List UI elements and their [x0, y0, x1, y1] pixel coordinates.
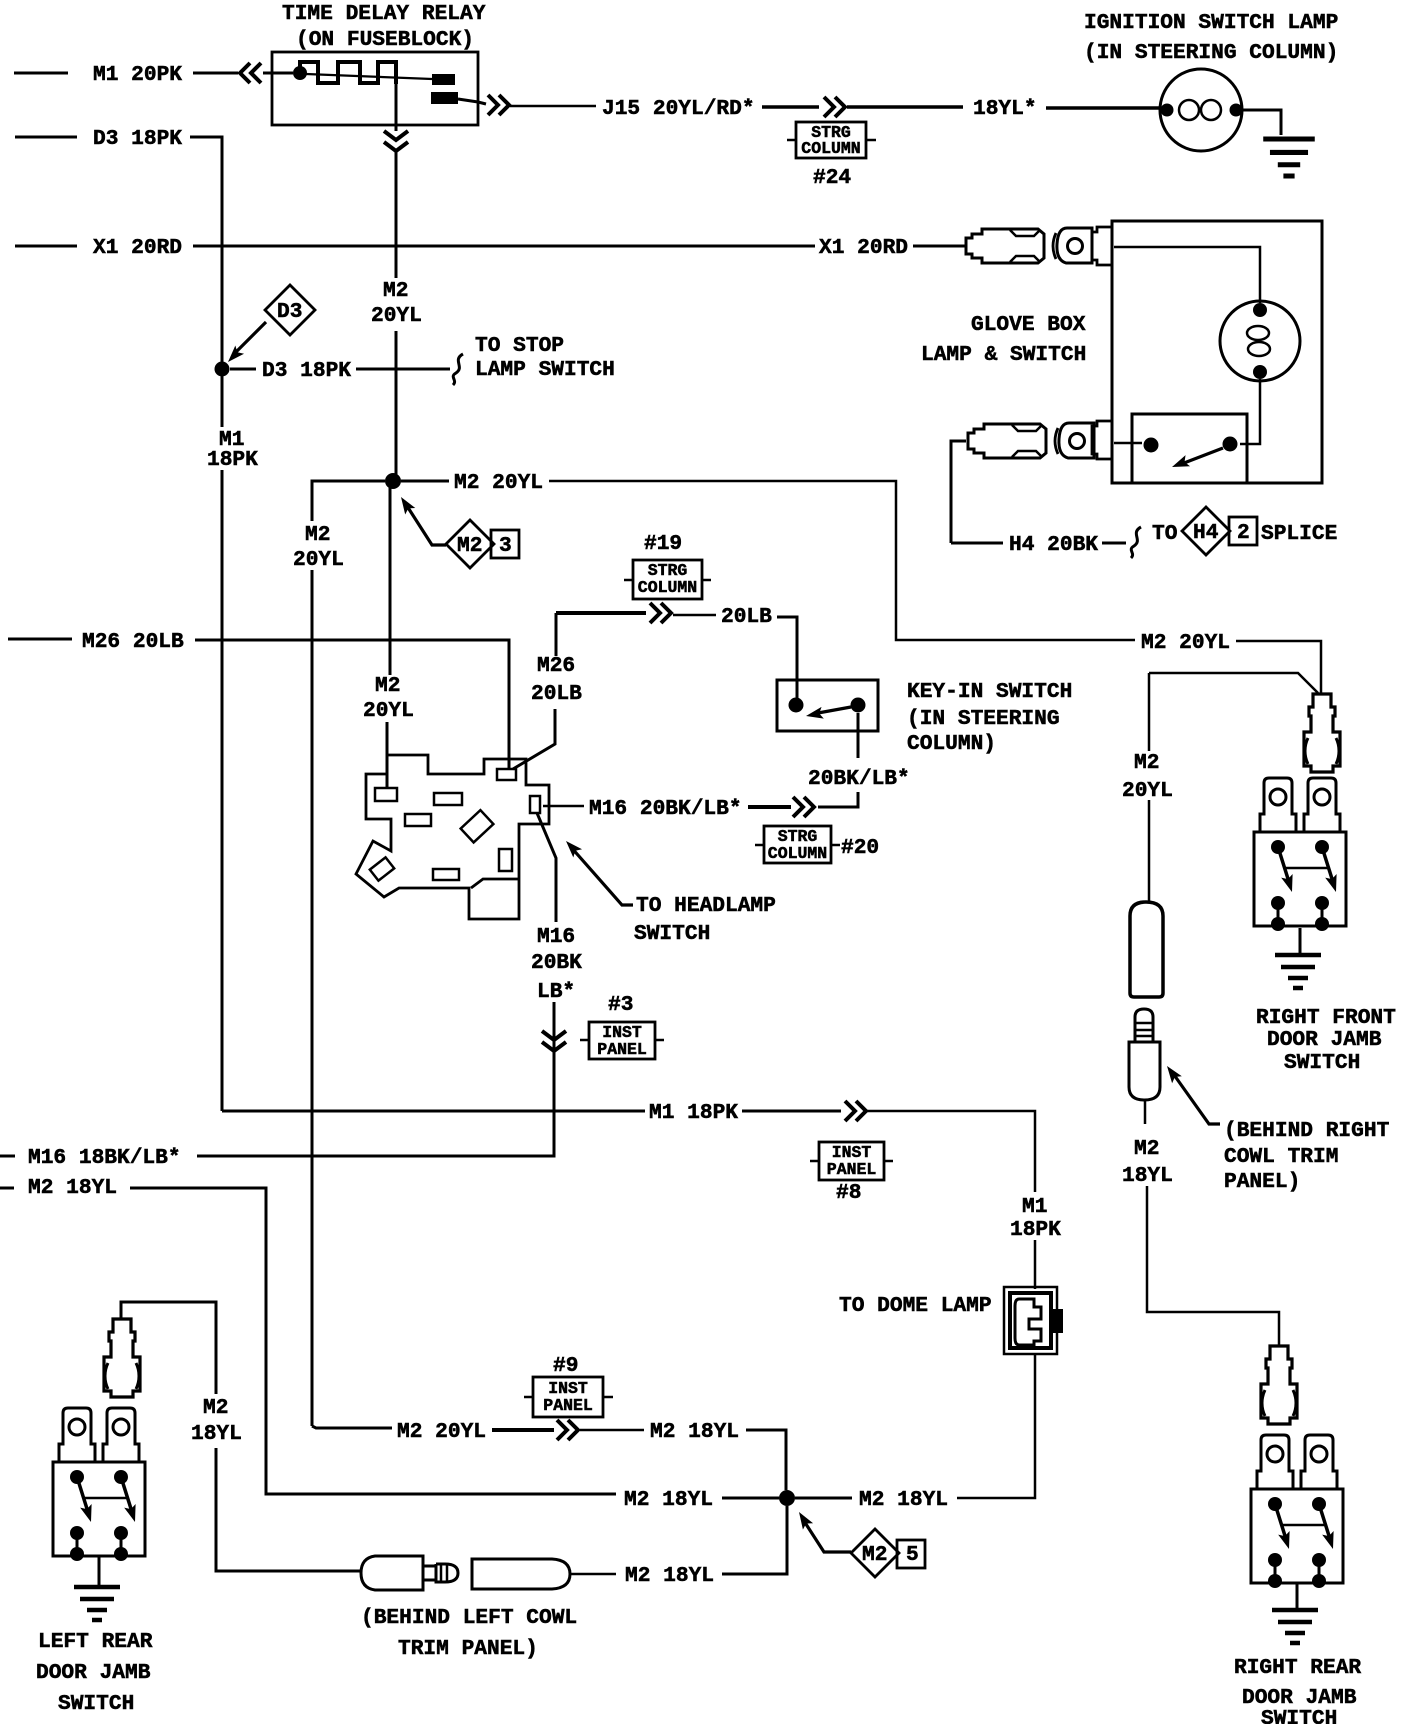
- label M1 18PK vertical: [207, 428, 258, 472]
- svg-text:#19: #19: [644, 532, 682, 556]
- label M2 20YL mid vertical: [363, 674, 414, 723]
- label J15 20YL/RD*: [602, 97, 755, 121]
- label right rear door jamb switch: [1234, 1656, 1361, 1724]
- arrow M2 5 to junction: [794, 1509, 851, 1552]
- connector pair H4: [968, 423, 1094, 458]
- svg-text:IGNITION SWITCH LAMP: IGNITION SWITCH LAMP: [1084, 11, 1338, 35]
- svg-text:18YL: 18YL: [191, 1422, 242, 1446]
- wire to 20LB label: [673, 614, 716, 617]
- label TO splice: [1152, 522, 1177, 546]
- svg-text:M2: M2: [1134, 1137, 1159, 1161]
- label #9: [553, 1354, 578, 1378]
- wire cowl male to M2 18YL vertical: [121, 1302, 361, 1571]
- wire M2 18YL stub: [0, 1187, 14, 1190]
- wire M26 20LB branch vertical: [513, 613, 646, 769]
- svg-text:TRIM PANEL): TRIM PANEL): [398, 1637, 538, 1661]
- svg-text:18YL: 18YL: [1122, 1164, 1173, 1188]
- label D3 18PK mid: [262, 359, 351, 383]
- diamond M2 5 pointer: [851, 1529, 899, 1577]
- right rear door jamb switch S6: [1251, 1435, 1343, 1588]
- svg-text:18YL*: 18YL*: [973, 97, 1037, 121]
- svg-text:(BEHIND LEFT COWL: (BEHIND LEFT COWL: [361, 1606, 577, 1630]
- ground left rear: [74, 1587, 120, 1620]
- wire M16 18BK/LB* stub: [0, 1155, 15, 1158]
- wire M26 20LB to headlamp switch: [195, 640, 509, 768]
- male bullet connector right column: [1129, 1009, 1160, 1100]
- svg-text:COLUMN: COLUMN: [768, 844, 827, 863]
- svg-text:TO STOP: TO STOP: [475, 334, 564, 358]
- svg-text:PANEL: PANEL: [827, 1160, 877, 1179]
- svg-text:M2 18YL: M2 18YL: [625, 1564, 714, 1588]
- right front door jamb switch S5: [1254, 778, 1346, 931]
- svg-text:PANEL): PANEL): [1224, 1170, 1300, 1194]
- svg-text:COLUMN): COLUMN): [907, 732, 996, 756]
- capsule connector right column: [1130, 902, 1163, 997]
- svg-text:5: 5: [906, 1543, 919, 1567]
- wire to J15 label: [510, 105, 596, 108]
- svg-text:RIGHT REAR: RIGHT REAR: [1234, 1656, 1361, 1680]
- svg-text:M2 20YL: M2 20YL: [1141, 631, 1230, 655]
- label M2 20YL left branch: [293, 523, 344, 572]
- wire M1 18PK row: [222, 1110, 645, 1113]
- label behind right cowl trim panel: [1224, 1119, 1390, 1194]
- svg-text:LAMP SWITCH: LAMP SWITCH: [475, 358, 615, 382]
- svg-text:TIME DELAY RELAY: TIME DELAY RELAY: [282, 2, 486, 26]
- wire X1 20RD long: [193, 245, 815, 248]
- label M2 20YL upper: [371, 279, 422, 328]
- wire male bullet down: [1145, 1100, 1279, 1346]
- wire M2 20YL corner to row: [312, 1426, 392, 1428]
- svg-text:LB*: LB*: [537, 980, 575, 1004]
- headlamp switch connector body: [356, 755, 549, 919]
- wire to M2 18YL label: [580, 1429, 644, 1432]
- wire M26 20LB stub: [8, 638, 72, 641]
- connector box STRG COLUMN #20: [755, 826, 879, 863]
- wire J15 to strg column: [762, 105, 819, 109]
- dome lamp connector: [1004, 1287, 1063, 1354]
- svg-text:M1: M1: [1022, 1195, 1047, 1219]
- label 18YL*: [973, 97, 1037, 121]
- svg-text:DOOR JAMB: DOOR JAMB: [1267, 1028, 1382, 1052]
- connector chevrons M1 inst panel #8: [845, 1101, 866, 1121]
- svg-text:M2 20YL: M2 20YL: [397, 1420, 486, 1444]
- wire lamp to ground: [1243, 110, 1281, 135]
- label M16 20BK/LB*: [589, 797, 742, 821]
- arrow M2 3 to junction: [396, 494, 446, 545]
- svg-text:COLUMN: COLUMN: [801, 139, 860, 158]
- wire D3 18PK stub: [15, 136, 77, 139]
- label M2 20YL right column: [1122, 751, 1173, 803]
- label M1 20PK: [93, 63, 182, 87]
- label M2 18YL near switch: [191, 1396, 242, 1446]
- svg-text:M2 18YL: M2 18YL: [650, 1420, 739, 1444]
- wire right front switch to ground: [1299, 928, 1302, 953]
- arrow behind right cowl: [1162, 1062, 1220, 1124]
- wire junction right: [795, 1497, 852, 1500]
- wire D3 18PK corner down: [190, 137, 222, 366]
- label to headlamp switch: [634, 894, 776, 946]
- svg-text:TO: TO: [1152, 522, 1177, 546]
- label M2 20YL junction: [454, 471, 543, 495]
- wire 18YL* to lamp: [1046, 106, 1161, 110]
- svg-text:#3: #3: [608, 993, 633, 1017]
- svg-text:(IN STEERING: (IN STEERING: [907, 707, 1060, 731]
- wire M2 20YL right column branch: [1149, 673, 1318, 693]
- svg-text:(BEHIND RIGHT: (BEHIND RIGHT: [1224, 1119, 1390, 1143]
- svg-text:M1 18PK: M1 18PK: [649, 1101, 738, 1125]
- wire M2 20YL into headlamp connector: [387, 481, 390, 788]
- svg-text:TO DOME LAMP: TO DOME LAMP: [839, 1294, 992, 1318]
- svg-text:2: 2: [1237, 521, 1250, 545]
- connector chevrons right J15: [488, 95, 509, 115]
- svg-text:M2: M2: [383, 279, 408, 303]
- svg-text:SWITCH: SWITCH: [634, 922, 710, 946]
- connector box INST PANEL #8: [810, 1142, 893, 1205]
- wire to 18YL*: [847, 105, 963, 109]
- svg-text:M16 20BK/LB*: M16 20BK/LB*: [589, 797, 742, 821]
- svg-text:(IN STEERING COLUMN): (IN STEERING COLUMN): [1084, 41, 1338, 65]
- wire X1 20RD stub: [15, 245, 77, 248]
- connector chevrons down M16: [542, 1031, 566, 1051]
- glove box internal wire lower: [1240, 379, 1260, 444]
- svg-text:COLUMN: COLUMN: [638, 578, 697, 597]
- svg-text:M2 18YL: M2 18YL: [859, 1488, 948, 1512]
- wire X1 to connector: [913, 245, 966, 248]
- ground ignition lamp: [1263, 139, 1315, 176]
- wire junction to D3 18PK label: [230, 368, 256, 371]
- svg-text:20YL: 20YL: [1122, 779, 1173, 803]
- connector box INST PANEL #3: [580, 1022, 664, 1059]
- connector chevrons M2 inst panel #9: [557, 1420, 578, 1440]
- ignition switch lamp DS1: [1160, 69, 1242, 151]
- wire junction left: [722, 1497, 779, 1500]
- wire M2 18YL left corner down: [130, 1188, 616, 1494]
- wire relay output J15: [458, 99, 486, 104]
- wire D3 18PK to stop lamp switch: [356, 368, 450, 371]
- label M2 18YL right column: [1122, 1137, 1173, 1188]
- splice number box 2: [1229, 517, 1257, 545]
- svg-text:SWITCH: SWITCH: [58, 1692, 134, 1716]
- svg-text:#24: #24: [813, 166, 851, 190]
- squiggle stop lamp: [453, 354, 463, 385]
- wire right rear switch to ground: [1296, 1583, 1299, 1608]
- svg-text:M1 20PK: M1 20PK: [93, 63, 182, 87]
- wire left rear switch to ground: [98, 1556, 101, 1585]
- headlamp connector pads: [370, 769, 540, 881]
- label 20LB: [721, 605, 772, 629]
- ignition switch lamp title: [1084, 11, 1338, 65]
- connector chevrons M16 strg column: [793, 797, 814, 817]
- wire junction down to cowl row: [722, 1506, 787, 1574]
- cowl male connector left: [361, 1556, 458, 1590]
- svg-text:TO HEADLAMP: TO HEADLAMP: [636, 894, 776, 918]
- glove box switch dots: [1144, 437, 1238, 473]
- svg-text:H4: H4: [1193, 521, 1219, 545]
- wire key-in to 20BK/LB*: [857, 713, 860, 758]
- svg-text:(ON FUSEBLOCK): (ON FUSEBLOCK): [296, 28, 474, 52]
- svg-text:20LB: 20LB: [721, 605, 772, 629]
- svg-text:SPLICE: SPLICE: [1261, 522, 1337, 546]
- svg-text:M2: M2: [375, 674, 400, 698]
- wire dome lamp to M2 row: [957, 1354, 1035, 1498]
- label H4 20BK: [1009, 533, 1098, 557]
- svg-text:KEY-IN SWITCH: KEY-IN SWITCH: [907, 680, 1072, 704]
- label M2 18YL cowl row: [625, 1564, 714, 1588]
- wire M2 20YL thick to chevrons: [492, 1428, 554, 1432]
- svg-text:J15 20YL/RD*: J15 20YL/RD*: [602, 97, 755, 121]
- label #3: [608, 993, 633, 1017]
- wire M2 20YL down to connector: [1236, 641, 1321, 694]
- wire M2 20YL from relay: [395, 84, 398, 477]
- wire M1 18PK to dome lamp: [867, 1111, 1035, 1289]
- wire 20LB to key-in switch: [777, 617, 797, 698]
- wire M16 thick: [748, 805, 791, 809]
- wire M2 20YL right branch: [401, 480, 449, 483]
- ground right front: [1275, 955, 1321, 988]
- label SPLICE: [1261, 522, 1337, 546]
- connector box STRG COLUMN #19: [624, 560, 711, 599]
- svg-text:M2: M2: [1134, 751, 1159, 775]
- relay coil element: [300, 62, 432, 84]
- label M1 18PK right column: [1010, 1195, 1061, 1242]
- wire H4 20BK corner: [951, 441, 1003, 543]
- label M2 20YL row: [397, 1420, 486, 1444]
- connector chevrons left M1: [240, 63, 261, 83]
- relay coil node dot: [293, 66, 307, 80]
- label M2 18YL left: [28, 1176, 117, 1200]
- svg-text:LEFT REAR: LEFT REAR: [38, 1630, 153, 1654]
- connector chevrons down M2: [384, 131, 408, 151]
- wire M2 18YL corner to junction: [746, 1430, 786, 1490]
- svg-text:M2: M2: [203, 1396, 228, 1420]
- svg-text:M26 20LB: M26 20LB: [82, 630, 184, 654]
- svg-text:D3: D3: [277, 300, 302, 324]
- cowl female connector left: [472, 1559, 570, 1589]
- svg-text:GLOVE BOX: GLOVE BOX: [971, 313, 1086, 337]
- label M26 20LB: [82, 630, 184, 654]
- svg-text:DOOR JAMB: DOOR JAMB: [36, 1661, 151, 1685]
- connector box INST PANEL #9: [524, 1377, 613, 1417]
- svg-text:X1 20RD: X1 20RD: [93, 236, 182, 260]
- wire M2 20YL to right column: [549, 481, 1135, 640]
- wire M16 to headlamp connector: [543, 805, 584, 808]
- svg-text:18PK: 18PK: [207, 448, 258, 472]
- svg-text:LAMP & SWITCH: LAMP & SWITCH: [921, 343, 1086, 367]
- svg-text:M16 18BK/LB*: M16 18BK/LB*: [28, 1146, 181, 1170]
- svg-text:#8: #8: [836, 1181, 861, 1205]
- wire 20BK/LB* corner: [818, 792, 858, 807]
- label D3 18PK: [93, 127, 182, 151]
- wire M1 20PK to relay: [193, 72, 238, 75]
- glove box enclosure: [1092, 221, 1322, 483]
- junction dot D3: [215, 362, 230, 377]
- connector chevrons strg column #24: [824, 97, 845, 117]
- svg-text:M2 18YL: M2 18YL: [624, 1488, 713, 1512]
- svg-text:PANEL: PANEL: [597, 1040, 647, 1059]
- svg-text:X1 20RD: X1 20RD: [819, 236, 908, 260]
- connector chevrons M26: [650, 603, 671, 623]
- svg-text:M2 18YL: M2 18YL: [28, 1176, 117, 1200]
- glove box switch S2: [1114, 414, 1247, 483]
- wire M2 20YL right vertical: [1148, 673, 1151, 901]
- label M26 20LB vertical: [531, 654, 582, 706]
- svg-text:SWITCH: SWITCH: [1284, 1051, 1360, 1075]
- key-in switch title: [907, 680, 1072, 756]
- bullet connector right front: [1304, 694, 1340, 772]
- wire M1 20PK stub: [14, 72, 68, 75]
- label X1 20RD: [93, 236, 182, 260]
- svg-text:20YL: 20YL: [363, 699, 414, 723]
- junction dot M2 18YL: [779, 1490, 795, 1506]
- svg-text:M16: M16: [537, 925, 575, 949]
- label M16 18BK/LB*: [28, 1146, 181, 1170]
- connector pair X1: [966, 228, 1092, 263]
- svg-text:#20: #20: [841, 836, 879, 860]
- key-in switch arm arrow: [805, 707, 851, 722]
- label behind left cowl trim panel: [361, 1606, 577, 1661]
- pointer number box 3: [491, 530, 519, 558]
- label to dome lamp: [839, 1294, 992, 1318]
- bullet connector left rear: [104, 1319, 140, 1397]
- key-in switch S3 box: [777, 680, 878, 731]
- key-in switch dots: [789, 698, 866, 713]
- svg-text:RIGHT FRONT: RIGHT FRONT: [1256, 1006, 1396, 1030]
- relay contact pads: [431, 74, 458, 104]
- wire H4 to splice: [1102, 542, 1126, 545]
- svg-text:M2: M2: [862, 1543, 887, 1567]
- label X1 20RD right: [819, 236, 908, 260]
- svg-text:#9: #9: [553, 1354, 578, 1378]
- wire M16 from pad diagonal: [197, 813, 556, 1156]
- svg-text:PANEL: PANEL: [543, 1396, 593, 1415]
- svg-text:20LB: 20LB: [531, 682, 582, 706]
- wire M1 18PK vertical: [221, 376, 224, 1111]
- svg-text:H4 20BK: H4 20BK: [1009, 533, 1098, 557]
- label M2 18YL junction right: [859, 1488, 948, 1512]
- svg-text:20BK/LB*: 20BK/LB*: [808, 767, 910, 791]
- label to stop lamp switch: [475, 334, 615, 382]
- svg-text:20BK: 20BK: [531, 951, 582, 975]
- label M1 18PK row: [649, 1101, 738, 1125]
- label left rear door jamb switch: [36, 1630, 153, 1716]
- svg-text:M2: M2: [457, 534, 482, 558]
- svg-text:3: 3: [499, 534, 512, 558]
- time delay relay K1 box: [272, 52, 478, 125]
- diamond D3: [265, 285, 315, 335]
- glove box title: [921, 313, 1086, 367]
- glove box lamp DS2: [1220, 301, 1300, 381]
- svg-text:COWL TRIM: COWL TRIM: [1224, 1145, 1338, 1169]
- bullet connector right rear: [1261, 1346, 1297, 1424]
- glove box internal wire upper: [1114, 247, 1260, 303]
- left rear door jamb switch S4: [53, 1408, 145, 1561]
- arrow D3 to junction: [224, 322, 266, 366]
- svg-text:18PK: 18PK: [1010, 1218, 1061, 1242]
- diamond H4: [1182, 507, 1230, 555]
- wire M2 20YL left branch: [312, 481, 385, 1426]
- time delay relay K1 title: [282, 2, 486, 52]
- svg-text:M2 20YL: M2 20YL: [454, 471, 543, 495]
- label right front door jamb switch: [1256, 1006, 1396, 1075]
- svg-text:SWITCH: SWITCH: [1261, 1707, 1337, 1724]
- label 20BK/LB*: [808, 767, 910, 791]
- svg-text:D3 18PK: D3 18PK: [93, 127, 182, 151]
- lamp terminal dots: [1161, 104, 1243, 117]
- diamond M2 3 pointer: [446, 520, 494, 568]
- svg-text:20YL: 20YL: [371, 304, 422, 328]
- glove box lamp dots: [1253, 303, 1267, 379]
- svg-text:D3 18PK: D3 18PK: [262, 359, 351, 383]
- svg-text:M2: M2: [305, 523, 330, 547]
- arrow to headlamp switch: [562, 837, 633, 905]
- wire to cowl female: [571, 1573, 616, 1576]
- svg-text:M26: M26: [537, 654, 575, 678]
- svg-text:20YL: 20YL: [293, 548, 344, 572]
- wire M1 18PK to inst panel: [742, 1110, 841, 1113]
- label M16 20BK LB* vertical: [531, 925, 582, 1004]
- label M2 18YL junction left: [624, 1488, 713, 1512]
- connector box STRG COLUMN #24: [787, 122, 876, 190]
- squiggle H4 splice: [1131, 527, 1141, 558]
- junction dot M2 20YL: [385, 473, 401, 489]
- wire into relay: [263, 72, 293, 75]
- ground right rear: [1272, 1610, 1318, 1643]
- label M2 18YL row: [650, 1420, 739, 1444]
- label #19: [644, 532, 682, 556]
- pointer number box 5: [897, 1540, 925, 1568]
- label M2 20YL right: [1141, 631, 1230, 655]
